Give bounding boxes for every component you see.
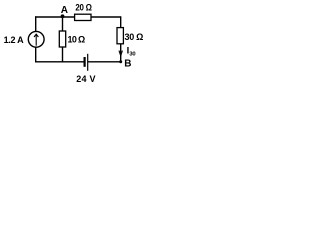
- svg-text:10 Ω: 10 Ω: [68, 35, 85, 45]
- svg-text:B: B: [124, 59, 131, 70]
- svg-text:30: 30: [129, 51, 135, 57]
- svg-text:24 V: 24 V: [76, 74, 95, 84]
- svg-text:1.2 A: 1.2 A: [4, 35, 24, 45]
- svg-text:A: A: [61, 5, 68, 16]
- svg-text:20 Ω: 20 Ω: [75, 3, 91, 13]
- svg-text:30 Ω: 30 Ω: [125, 32, 144, 42]
